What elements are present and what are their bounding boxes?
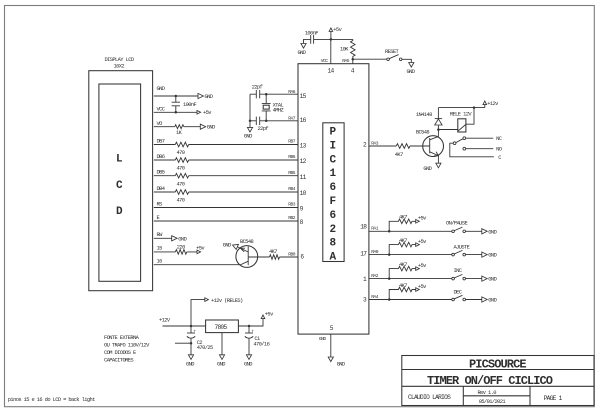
svg-text:GND: GND bbox=[488, 229, 496, 235]
svg-text:1: 1 bbox=[363, 276, 367, 283]
svg-text:GND: GND bbox=[423, 166, 431, 172]
svg-text:GND: GND bbox=[223, 243, 231, 249]
svg-text:100nF: 100nF bbox=[183, 102, 197, 108]
svg-text:CLAUDIO LARIOS: CLAUDIO LARIOS bbox=[408, 394, 451, 401]
svg-text:NO: NO bbox=[496, 147, 502, 153]
svg-text:3: 3 bbox=[363, 297, 367, 304]
svg-text:Rev 1.0: Rev 1.0 bbox=[478, 390, 497, 396]
svg-text:17: 17 bbox=[360, 250, 367, 257]
wire switch3 to ground bbox=[466, 278, 482, 280]
svg-text:PICSOURCE: PICSOURCE bbox=[469, 357, 526, 371]
node junction bottom of crystal bbox=[265, 120, 268, 123]
svg-text:GND: GND bbox=[407, 69, 415, 75]
svg-text:ON/PAUSE: ON/PAUSE bbox=[446, 220, 467, 226]
svg-text:I: I bbox=[330, 140, 336, 152]
svg-text:2: 2 bbox=[363, 141, 367, 148]
svg-text:DB5: DB5 bbox=[157, 170, 165, 176]
svg-text:OU TRAFO 110V/12V: OU TRAFO 110V/12V bbox=[104, 343, 150, 349]
svg-text:14: 14 bbox=[328, 67, 335, 74]
switch ON/PAUSE bbox=[452, 230, 455, 233]
ground arrow C2 bbox=[188, 355, 193, 360]
+12v arrow relay rail bbox=[484, 104, 486, 108]
svg-text:6: 6 bbox=[300, 253, 304, 260]
title block outer bbox=[402, 356, 594, 406]
svg-text:RA0: RA0 bbox=[371, 249, 379, 255]
svg-text:GND: GND bbox=[244, 134, 252, 140]
resistor 10K pullup bbox=[351, 39, 356, 59]
svg-text:RB0: RB0 bbox=[288, 251, 296, 257]
svg-text:RA5: RA5 bbox=[342, 58, 350, 64]
svg-text:FONTE EXTERNA: FONTE EXTERNA bbox=[104, 335, 140, 341]
svg-text:8: 8 bbox=[330, 238, 337, 250]
svg-text:RA1: RA1 bbox=[371, 226, 379, 232]
wire crystal bottom RA7 pin16 bbox=[250, 120, 298, 122]
svg-text:VO: VO bbox=[157, 121, 163, 127]
svg-text:470: 470 bbox=[177, 198, 185, 204]
wire switch4 to ground bbox=[466, 299, 482, 301]
svg-text:INC: INC bbox=[454, 268, 462, 274]
svg-text:+5v: +5v bbox=[418, 284, 427, 290]
Q2 emitter diagonal with arrow bbox=[238, 247, 249, 252]
ground arrow pin5 bbox=[328, 357, 333, 362]
+5v arrow RA4 bbox=[416, 288, 420, 292]
switch DEC bbox=[452, 298, 455, 301]
resistor 4K7 base Q2 bbox=[270, 255, 280, 260]
wire RA1 pin18 row bbox=[369, 230, 452, 232]
svg-text:220: 220 bbox=[177, 245, 185, 251]
LCD1 display module inner window bbox=[99, 84, 141, 281]
ground arrow Q1 bbox=[436, 163, 441, 168]
wire RS row to pin 9 bbox=[154, 207, 298, 209]
wire common contact out bbox=[450, 143, 494, 157]
op-amp U1 PIC16F628A body bbox=[298, 64, 369, 334]
svg-text:470: 470 bbox=[177, 181, 185, 187]
relay K1 coil RELE 12V bbox=[458, 119, 466, 132]
svg-text:+12v: +12v bbox=[487, 101, 499, 107]
capacitor C1 470/16 bbox=[248, 326, 250, 333]
capacitor 100nF across GND/VCC bbox=[175, 96, 177, 112]
svg-text:+: + bbox=[251, 329, 254, 334]
svg-text:+5v: +5v bbox=[333, 27, 342, 33]
wire RA3 pin2 to base resistor bbox=[369, 145, 430, 147]
resistor 470 DB5 bbox=[175, 173, 188, 178]
resistor 4K7 base Q1 bbox=[396, 144, 410, 149]
svg-text:+5v: +5v bbox=[418, 216, 427, 222]
capacitor C2 470/25 bbox=[190, 326, 192, 333]
ground arrow GND row bbox=[198, 93, 203, 98]
switch INC bbox=[452, 277, 455, 280]
svg-text:+: + bbox=[193, 329, 196, 334]
wire crystal top RA6 pin15 bbox=[250, 93, 298, 95]
svg-text:4K7: 4K7 bbox=[395, 152, 403, 158]
svg-text:16: 16 bbox=[300, 117, 307, 124]
+5v arrow 7805 bbox=[261, 315, 265, 319]
svg-text:+5v: +5v bbox=[196, 245, 205, 251]
svg-text:+12v (RELES): +12v (RELES) bbox=[211, 298, 243, 304]
LCD1 display module outer body bbox=[89, 71, 153, 291]
svg-text:RELE 12V: RELE 12V bbox=[450, 111, 472, 117]
svg-text:RESET: RESET bbox=[385, 49, 400, 55]
svg-text:F: F bbox=[330, 196, 336, 208]
transistor Q1 BC548 relay driver bbox=[423, 136, 444, 157]
svg-text:RB6: RB6 bbox=[288, 154, 296, 160]
svg-text:GND: GND bbox=[298, 50, 306, 56]
svg-text:RB5: RB5 bbox=[288, 170, 296, 176]
svg-text:9: 9 bbox=[300, 206, 304, 213]
title block column dividers bbox=[463, 386, 530, 405]
svg-text:GND: GND bbox=[186, 361, 194, 367]
wire top +5v rail bbox=[314, 38, 353, 40]
wire Q2 base to 4K7 bbox=[248, 256, 298, 258]
transistor Q2 BC548 backlight bbox=[236, 246, 258, 268]
svg-text:470/25: 470/25 bbox=[197, 345, 213, 351]
capacitor 100nF at U1 VCC bbox=[311, 35, 314, 44]
svg-text:4: 4 bbox=[351, 67, 355, 74]
svg-text:470: 470 bbox=[177, 166, 185, 172]
svg-text:DB7: DB7 bbox=[157, 138, 165, 144]
resistor 470 DB6 bbox=[175, 158, 188, 163]
svg-text:6: 6 bbox=[330, 210, 336, 222]
node junction on GND row bbox=[175, 95, 178, 98]
svg-text:GND: GND bbox=[205, 94, 213, 100]
svg-text:GND: GND bbox=[207, 125, 215, 131]
svg-text:6: 6 bbox=[330, 182, 336, 194]
svg-text:470/16: 470/16 bbox=[253, 342, 269, 348]
svg-text:16X2: 16X2 bbox=[114, 64, 125, 70]
svg-text:1: 1 bbox=[330, 168, 337, 180]
svg-text:GND: GND bbox=[157, 86, 165, 92]
ground arrow Q2 emitter bbox=[233, 244, 239, 249]
wire diode junction to relay coil bbox=[438, 129, 457, 131]
wire LCD pin16 row bbox=[154, 264, 241, 266]
svg-text:4K7: 4K7 bbox=[269, 249, 277, 255]
svg-text:GND: GND bbox=[244, 361, 252, 367]
svg-text:4K7: 4K7 bbox=[399, 262, 407, 268]
svg-text:C: C bbox=[330, 154, 337, 166]
svg-text:RW: RW bbox=[157, 232, 164, 238]
resistor 470 DB4 bbox=[175, 190, 188, 195]
svg-text:VCC: VCC bbox=[157, 107, 165, 113]
svg-text:100nF: 100nF bbox=[305, 30, 319, 36]
svg-text:PAGE 1: PAGE 1 bbox=[544, 395, 563, 402]
svg-text:RB7: RB7 bbox=[288, 138, 296, 144]
svg-text:470: 470 bbox=[177, 150, 185, 156]
svg-text:C: C bbox=[498, 155, 501, 161]
wire switch2 to ground bbox=[466, 254, 482, 256]
svg-text:1K: 1K bbox=[176, 130, 183, 136]
ground arrow 7805 bbox=[219, 355, 224, 360]
wire +12v rail relay bbox=[438, 107, 484, 109]
+5v arrow VCC row bbox=[197, 111, 201, 115]
wire RA0 pin17 row bbox=[369, 254, 452, 256]
resistor 1K on VO row bbox=[175, 125, 184, 129]
resistor 4K7 pullup RA4 bbox=[389, 287, 416, 299]
wire relay coil to +12v rail bbox=[466, 108, 474, 125]
svg-text:GND: GND bbox=[488, 298, 496, 304]
svg-text:RB4: RB4 bbox=[288, 186, 296, 192]
svg-text:GND: GND bbox=[337, 361, 345, 367]
title block row dividers bbox=[402, 370, 594, 387]
capacitor 22pf top bbox=[256, 90, 259, 98]
svg-text:D: D bbox=[116, 206, 123, 218]
svg-text:7805: 7805 bbox=[215, 324, 228, 331]
resistor 4K7 pullup RA0 bbox=[389, 242, 416, 254]
svg-text:A: A bbox=[330, 252, 337, 264]
wire VCC pin14 vertical bbox=[330, 39, 332, 63]
svg-text:GND: GND bbox=[217, 361, 225, 367]
wire LCD VCC row bbox=[154, 111, 197, 113]
svg-text:5: 5 bbox=[330, 325, 334, 332]
svg-text:AJUSTE: AJUSTE bbox=[454, 244, 470, 250]
svg-text:4K7: 4K7 bbox=[399, 238, 407, 244]
svg-text:+12V: +12V bbox=[159, 318, 171, 324]
wire RA5 to reset switch bbox=[353, 58, 387, 60]
svg-text:4MHZ: 4MHZ bbox=[273, 108, 285, 114]
svg-text:BC548: BC548 bbox=[416, 129, 430, 135]
wire NO out bbox=[466, 148, 494, 150]
ground arrow C1 bbox=[246, 355, 251, 360]
Q2 collector diagonal to pin16 wire bbox=[240, 261, 248, 265]
relay lever bbox=[456, 139, 463, 143]
wire 7805 output bbox=[238, 318, 263, 326]
wire E row to pin 8 bbox=[154, 220, 298, 222]
svg-text:1N4148: 1N4148 bbox=[416, 112, 432, 118]
svg-text:10K: 10K bbox=[340, 47, 349, 53]
+12v (RELES) arrow bbox=[205, 298, 209, 302]
svg-text:+5v: +5v bbox=[418, 263, 427, 269]
relay contact NO bbox=[463, 147, 466, 150]
svg-text:11: 11 bbox=[300, 174, 307, 181]
title block rev cell divider bbox=[463, 395, 530, 397]
wire LCD GND row bbox=[154, 95, 198, 97]
svg-text:E: E bbox=[157, 215, 160, 221]
svg-text:RS: RS bbox=[157, 201, 163, 207]
wire Q1 collector up to diode junction bbox=[437, 130, 439, 137]
svg-text:4K7: 4K7 bbox=[399, 215, 407, 221]
svg-text:pinos 15 e 16 do LCD = back l: pinos 15 e 16 do LCD = back light bbox=[8, 397, 95, 403]
svg-text:22pf: 22pf bbox=[252, 84, 263, 90]
relay contact pivot bbox=[453, 142, 456, 145]
crystal X1 4MHZ bbox=[265, 94, 267, 121]
wire RW row to ground bbox=[154, 237, 172, 239]
svg-text:GND: GND bbox=[488, 253, 496, 259]
svg-text:+5v: +5v bbox=[265, 312, 274, 318]
svg-text:05/01/2021: 05/01/2021 bbox=[479, 399, 506, 405]
wire reset to ground bbox=[402, 59, 411, 62]
wire 7805 ground tab bbox=[221, 333, 223, 355]
wire LCD pin15 row bbox=[154, 251, 197, 253]
svg-text:P: P bbox=[330, 127, 337, 139]
resistor 4K7 pullup RA1 bbox=[389, 219, 416, 231]
svg-text:8: 8 bbox=[300, 219, 304, 226]
svg-text:22pf: 22pf bbox=[258, 126, 269, 132]
svg-text:C: C bbox=[116, 180, 123, 192]
svg-text:DEC: DEC bbox=[454, 289, 462, 295]
voltage regulator 7805 bbox=[206, 320, 239, 333]
resistor 220 pin15 bbox=[175, 250, 186, 255]
svg-text:GND: GND bbox=[178, 236, 186, 242]
resistor 4K7 pullup RA2 bbox=[389, 266, 416, 278]
wire DB6 row to pin 12 bbox=[154, 159, 298, 161]
svg-text:CAPACITORES: CAPACITORES bbox=[104, 358, 133, 364]
svg-text:GND: GND bbox=[319, 336, 327, 342]
svg-text:DB6: DB6 bbox=[157, 154, 165, 160]
ground arrow VO row bbox=[200, 124, 205, 129]
+5v arrow RA2 bbox=[416, 267, 420, 271]
+5v arrow RA0 bbox=[416, 243, 420, 247]
svg-text:10: 10 bbox=[300, 190, 307, 197]
svg-text:NC: NC bbox=[496, 136, 502, 142]
svg-text:RA2: RA2 bbox=[371, 273, 379, 279]
ground arrow crystal bbox=[247, 127, 252, 132]
resistor 470 DB7 bbox=[175, 142, 188, 147]
svg-text:BC548: BC548 bbox=[240, 239, 254, 245]
wire DB4 row to pin 10 bbox=[154, 191, 298, 193]
ground arrow RW row bbox=[172, 236, 177, 241]
svg-text:4K7: 4K7 bbox=[399, 283, 407, 289]
svg-text:13: 13 bbox=[300, 142, 307, 149]
svg-text:L: L bbox=[116, 154, 123, 166]
svg-text:15: 15 bbox=[157, 246, 163, 252]
switch AJUSTE bbox=[452, 253, 455, 256]
wire RA4 pin3 row bbox=[369, 299, 452, 301]
diode D1 1N4148 bbox=[437, 108, 439, 130]
capacitor 22pf bottom bbox=[256, 117, 259, 125]
svg-text:+5v: +5v bbox=[203, 110, 212, 116]
wire DB5 row to pin 11 bbox=[154, 175, 298, 177]
+5v arrow pin15 row bbox=[197, 250, 201, 254]
svg-text:GND: GND bbox=[488, 277, 496, 283]
wire Q1 emitter to ground bbox=[437, 156, 439, 164]
+5v arrow RA1 bbox=[416, 220, 420, 224]
svg-text:RB2: RB2 bbox=[288, 215, 296, 221]
U1 inner label box bbox=[323, 123, 344, 262]
relay contact NC bbox=[463, 137, 466, 140]
wire switch1 to ground bbox=[466, 230, 482, 232]
svg-text:VCC: VCC bbox=[321, 58, 329, 64]
wire RA5 pin4 vertical bbox=[352, 59, 354, 64]
ground arrow reset bbox=[409, 63, 414, 68]
svg-text:RB3: RB3 bbox=[288, 202, 296, 208]
wire +12v branch to reles bbox=[191, 300, 205, 326]
wire DB7 row to pin 13 bbox=[154, 144, 298, 146]
wire U1 pin5 to ground bbox=[330, 334, 332, 357]
wire NC out bbox=[466, 137, 494, 139]
ground arrow 100nF bbox=[301, 44, 306, 49]
svg-text:+5v: +5v bbox=[418, 239, 427, 245]
svg-text:COM DIODOS E: COM DIODOS E bbox=[104, 350, 136, 356]
+5v arrow top bbox=[330, 31, 332, 40]
svg-text:12: 12 bbox=[300, 158, 307, 165]
wire crystal left leg bbox=[249, 94, 251, 127]
svg-text:DB4: DB4 bbox=[157, 186, 165, 192]
svg-text:DISPLAY LCD: DISPLAY LCD bbox=[105, 57, 134, 63]
wire LCD VO row bbox=[154, 126, 201, 128]
wire external source return bbox=[175, 342, 191, 344]
svg-text:2: 2 bbox=[330, 224, 336, 236]
wire +12V input bbox=[163, 325, 206, 327]
node junction top of crystal bbox=[265, 93, 268, 96]
svg-text:18: 18 bbox=[360, 224, 367, 231]
svg-text:RA4: RA4 bbox=[371, 294, 379, 300]
svg-text:16: 16 bbox=[157, 259, 163, 265]
switch RESET bbox=[387, 58, 390, 61]
svg-text:15: 15 bbox=[300, 93, 307, 100]
wire RA2 pin1 row bbox=[369, 278, 452, 280]
svg-text:TIMER ON/OFF CICLICO: TIMER ON/OFF CICLICO bbox=[427, 374, 553, 388]
